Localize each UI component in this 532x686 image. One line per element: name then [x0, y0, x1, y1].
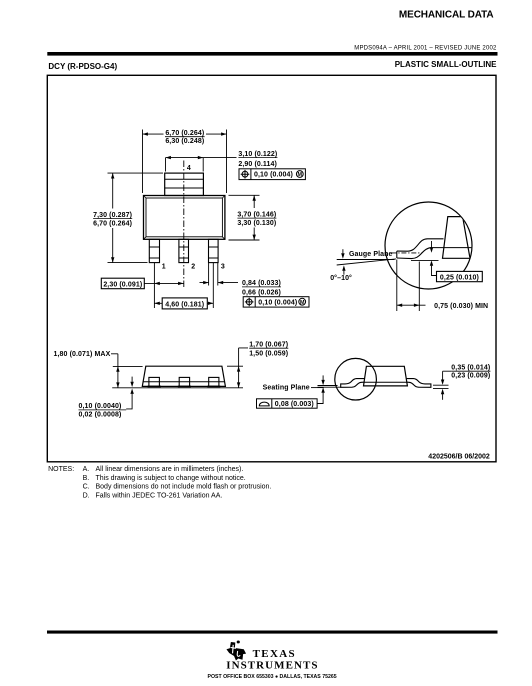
svg-text:2,30 (0.091): 2,30 (0.091): [103, 281, 142, 288]
svg-text:INSTRUMENTS: INSTRUMENTS: [226, 660, 318, 672]
detail circle: [385, 202, 472, 289]
seating plane leader line: [311, 387, 324, 389]
svg-text:6,70 (0.264): 6,70 (0.264): [165, 130, 204, 137]
pin 1 center extension line: [153, 263, 155, 308]
seating plane converging arrows: [322, 375, 324, 380]
svg-text:M: M: [300, 300, 305, 306]
svg-text:0,75 (0.030) MIN: 0,75 (0.030) MIN: [434, 303, 488, 310]
svg-text:0,66 (0.026): 0,66 (0.026): [242, 290, 281, 297]
TI logo Texas state map: [226, 641, 246, 661]
svg-text:0,84 (0.033): 0,84 (0.033): [242, 280, 281, 287]
body shoulder line (side view): [143, 381, 225, 383]
svg-text:0,35 (0.014): 0,35 (0.014): [451, 365, 490, 372]
svg-text:1: 1: [162, 264, 166, 271]
dimension 2,30 pin pitch: [144, 282, 183, 284]
svg-text:NOTES:: NOTES:: [48, 466, 74, 473]
svg-text:C.: C.: [83, 484, 90, 491]
lead 3 (side view): [209, 377, 219, 386]
dimension 4,60 pin span: [154, 302, 213, 304]
svg-text:Gauge Plane: Gauge Plane: [349, 251, 393, 258]
dimension 6,70/6,30 overall width: [143, 130, 227, 194]
left lead (profile): [341, 379, 365, 388]
svg-text:0,10 (0.0040): 0,10 (0.0040): [79, 403, 122, 410]
svg-text:6,70 (0.264): 6,70 (0.264): [93, 221, 132, 228]
pin 1: [149, 239, 159, 262]
lead foot angle line 0-10 deg: [337, 259, 396, 265]
body profile in detail: [443, 217, 471, 259]
svg-text:DCY (R-PDSO-G4): DCY (R-PDSO-G4): [48, 62, 117, 71]
tab stripe lines: [165, 179, 204, 188]
svg-text:TEXAS: TEXAS: [253, 648, 296, 660]
lead upper surface in detail: [397, 239, 444, 251]
tab (pin 4): [165, 173, 204, 195]
footer rule bar: [47, 631, 498, 634]
seating plane datum frame: [257, 399, 318, 408]
lead feet segments: [148, 385, 221, 387]
dimension 0,10/0,02 standoff: [131, 377, 133, 382]
dimension 7,30/6,70 overall height: [108, 173, 164, 263]
svg-text:A.: A.: [83, 466, 90, 473]
vertical centerline: [183, 161, 185, 290]
dimension 0,35/0,23 lead thickness: [451, 365, 490, 380]
svg-text:All linear dimensions are in m: All linear dimensions are in millimeters…: [96, 466, 244, 473]
svg-text:Body dimensions do not include: Body dimensions do not include mold flas…: [96, 484, 272, 491]
drawing border frame: [47, 75, 496, 462]
dimension 3,70/3,30 body height: [229, 195, 260, 240]
body shoulder line (profile): [364, 381, 407, 383]
svg-text:3,30 (0.130): 3,30 (0.130): [237, 220, 276, 227]
svg-text:Falls within JEDEC TO-261 Vari: Falls within JEDEC TO-261 Variation AA.: [96, 493, 223, 500]
svg-text:4,60 (0.181): 4,60 (0.181): [165, 301, 204, 308]
svg-text:0,02 (0.0008): 0,02 (0.0008): [79, 412, 122, 419]
svg-text:0,10 (0.004): 0,10 (0.004): [254, 172, 293, 179]
svg-text:0,08 (0.003): 0,08 (0.003): [275, 401, 314, 408]
dimension 0,75 MIN foot length: [397, 260, 426, 312]
lead lower surface in detail: [397, 248, 432, 259]
right lead (profile): [407, 379, 431, 388]
gauge plane leader arrow: [342, 249, 344, 253]
svg-text:0,25 (0.010): 0,25 (0.010): [440, 274, 479, 281]
lead tip in detail: [396, 251, 398, 258]
svg-text:D.: D.: [83, 493, 90, 500]
body outline (side view): [142, 366, 225, 386]
svg-text:7,30 (0.287): 7,30 (0.287): [93, 212, 132, 219]
seating plane line under side view: [112, 387, 243, 389]
svg-text:3,10 (0.122): 3,10 (0.122): [238, 151, 277, 158]
package body inner mold line: [146, 198, 222, 237]
dimension 0,84/0,66 pin width: [200, 282, 239, 284]
svg-text:1,50 (0.059): 1,50 (0.059): [249, 350, 288, 357]
body shoulder line in detail: [432, 247, 472, 249]
body corner chamfer lines: [144, 196, 225, 240]
svg-text:1,70 (0.067): 1,70 (0.067): [249, 341, 288, 348]
feature control frame (pin position tolerance): [243, 297, 309, 307]
svg-text:B.: B.: [83, 475, 90, 482]
svg-text:PLASTIC SMALL-OUTLINE: PLASTIC SMALL-OUTLINE: [395, 60, 497, 69]
angle arrow up: [342, 265, 345, 270]
lead 1 (side view): [149, 377, 160, 386]
svg-text:4202506/B 06/2002: 4202506/B 06/2002: [428, 453, 490, 460]
lead 2 (side view): [179, 377, 189, 386]
pin 3: [209, 239, 219, 262]
svg-text:0°–10°: 0°–10°: [330, 274, 352, 282]
svg-text:2: 2: [191, 264, 195, 271]
package body outline (top view): [144, 196, 225, 240]
header rule bar: [47, 52, 497, 56]
pin 3 edge extension lines: [209, 263, 218, 286]
svg-text:0,10 (0.004): 0,10 (0.004): [258, 299, 297, 306]
svg-text:3,70 (0.146): 3,70 (0.146): [237, 211, 276, 218]
feature control frame (tab position tolerance): [239, 169, 305, 180]
svg-text:4: 4: [187, 165, 191, 172]
svg-text:1,80 (0.071) MAX: 1,80 (0.071) MAX: [54, 351, 111, 358]
svg-text:M: M: [298, 172, 303, 178]
body outline (profile view): [364, 366, 408, 386]
svg-text:2,90 (0.114): 2,90 (0.114): [238, 161, 277, 168]
pin 2: [179, 239, 189, 262]
gauge plane dash-dot line: [392, 252, 422, 254]
svg-text:POST OFFICE BOX 655303 ● DALLA: POST OFFICE BOX 655303 ● DALLAS, TEXAS 7…: [208, 674, 337, 680]
svg-text:0,23 (0.009): 0,23 (0.009): [451, 373, 490, 380]
pin 3 center extension line: [212, 263, 214, 308]
seating plane zone lines: [318, 386, 342, 388]
gauge plane horizontal reference line: [337, 259, 395, 261]
svg-text:3: 3: [221, 264, 225, 271]
dimension 1,70/1,50 body height: [249, 341, 288, 357]
svg-text:This drawing is subject to cha: This drawing is subject to change withou…: [96, 475, 246, 482]
dimension 3,10/2,90 tab width: [166, 158, 237, 172]
svg-text:6,30 (0.248): 6,30 (0.248): [165, 138, 204, 145]
dimension 0,25 gauge height: [431, 241, 433, 248]
detail reference circle: [335, 358, 377, 400]
svg-text:MECHANICAL DATA: MECHANICAL DATA: [399, 10, 494, 21]
svg-text:MPDS094A – APRIL 2001 – REVISE: MPDS094A – APRIL 2001 – REVISED JUNE 200…: [354, 45, 497, 51]
svg-text:Seating Plane: Seating Plane: [263, 385, 310, 392]
